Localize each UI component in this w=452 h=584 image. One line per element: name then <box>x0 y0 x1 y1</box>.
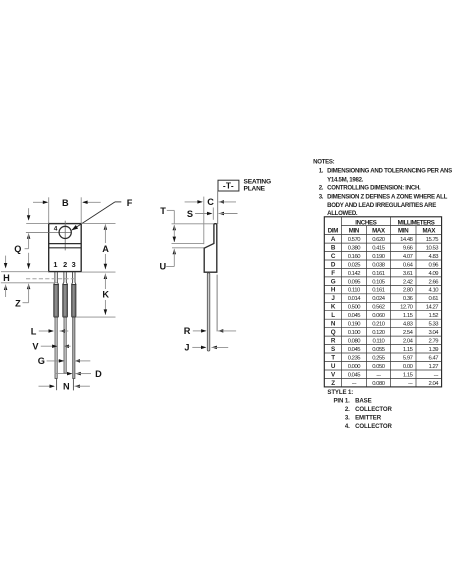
side view: lead <box>207 273 210 351</box>
svg-text:0.050: 0.050 <box>372 364 385 370</box>
svg-text:4.: 4. <box>345 423 350 430</box>
svg-text:10.53: 10.53 <box>426 245 439 251</box>
svg-text:1.15: 1.15 <box>403 313 414 319</box>
svg-text:0.105: 0.105 <box>372 279 385 285</box>
front view: thin lead 2 lower section <box>64 317 66 373</box>
front view: thick lead sections (dim K zone) <box>54 284 76 317</box>
front view: A dimension <box>81 224 115 273</box>
svg-text:---: --- <box>408 381 413 387</box>
svg-text:0.570: 0.570 <box>348 237 361 243</box>
svg-text:0.045: 0.045 <box>348 372 361 378</box>
front view: body step lines <box>49 244 81 248</box>
svg-text:0.095: 0.095 <box>348 279 361 285</box>
side view: package body outline <box>204 224 217 273</box>
svg-text:1.15: 1.15 <box>403 347 414 353</box>
svg-text:0.025: 0.025 <box>348 262 361 268</box>
style 1 pin assignment list <box>327 389 392 430</box>
svg-text:5.97: 5.97 <box>403 355 413 361</box>
svg-text:0.96: 0.96 <box>429 262 440 268</box>
svg-text:2.66: 2.66 <box>429 279 440 285</box>
svg-text:0.120: 0.120 <box>372 330 385 336</box>
svg-text:-T-: -T- <box>223 181 234 191</box>
svg-text:4: 4 <box>54 225 58 232</box>
front view: Z dimension <box>15 284 30 309</box>
svg-text:0.080: 0.080 <box>348 339 361 345</box>
svg-text:1.: 1. <box>319 168 324 175</box>
svg-text:2: 2 <box>63 260 67 269</box>
svg-text:0.060: 0.060 <box>372 313 385 319</box>
svg-text:DIMENSIONING AND TOLERANCING P: DIMENSIONING AND TOLERANCING PER ANSI <box>327 168 452 175</box>
svg-text:4.10: 4.10 <box>429 288 440 294</box>
svg-text:B: B <box>62 198 69 208</box>
svg-text:2.: 2. <box>345 406 350 413</box>
svg-text:0.110: 0.110 <box>348 288 361 294</box>
svg-text:J: J <box>184 343 189 353</box>
front view: pin number labels 1 2 3 <box>53 260 75 269</box>
side view: seating plane text <box>244 179 271 193</box>
svg-text:2.54: 2.54 <box>403 330 414 336</box>
svg-text:0.190: 0.190 <box>348 322 361 328</box>
svg-text:0.500: 0.500 <box>348 305 361 311</box>
svg-text:2.80: 2.80 <box>403 288 414 294</box>
svg-text:N: N <box>63 382 70 392</box>
svg-text:3.: 3. <box>345 415 350 422</box>
svg-text:MAX: MAX <box>372 227 386 234</box>
svg-text:K: K <box>102 290 109 300</box>
side view: J dimension <box>184 343 228 353</box>
svg-text:NOTES:: NOTES: <box>313 159 335 166</box>
svg-text:3.04: 3.04 <box>429 330 440 336</box>
svg-text:0.161: 0.161 <box>372 288 384 294</box>
svg-text:0.415: 0.415 <box>372 245 385 251</box>
svg-text:15.75: 15.75 <box>426 237 439 243</box>
svg-text:V: V <box>32 342 39 352</box>
svg-text:1.15: 1.15 <box>403 372 414 378</box>
svg-text:4.83: 4.83 <box>429 254 440 260</box>
front view: G dimension <box>38 356 91 366</box>
svg-text:DIMENSION Z DEFINES A ZONE WHE: DIMENSION Z DEFINES A ZONE WHERE ALL <box>327 194 447 201</box>
svg-text:DIM: DIM <box>328 227 338 234</box>
svg-text:4.09: 4.09 <box>429 271 439 277</box>
svg-text:3: 3 <box>72 260 76 269</box>
front view: F leader to mounting hole <box>70 198 132 232</box>
svg-text:S: S <box>187 209 193 219</box>
side view: seating plane extension below body <box>216 275 218 332</box>
svg-text:6.47: 6.47 <box>429 355 439 361</box>
front view: mounting hole <box>59 226 71 238</box>
front view: H dimension <box>1 256 57 297</box>
svg-text:COLLECTOR: COLLECTOR <box>355 406 392 413</box>
notes block <box>313 159 452 218</box>
front view: thin lead 1 lower section <box>55 317 57 390</box>
dimension table data <box>331 236 440 387</box>
svg-text:0.00: 0.00 <box>403 364 414 370</box>
svg-text:STYLE 1:: STYLE 1: <box>327 389 353 396</box>
svg-text:C: C <box>207 197 214 207</box>
front view: L dimension <box>31 326 69 336</box>
svg-text:ALLOWED.: ALLOWED. <box>327 210 358 217</box>
svg-text:9.66: 9.66 <box>403 245 414 251</box>
svg-text:1.27: 1.27 <box>429 364 439 370</box>
svg-text:0.210: 0.210 <box>372 322 385 328</box>
side view: datum extension line from box <box>217 191 219 224</box>
svg-text:12.70: 12.70 <box>400 305 413 311</box>
svg-text:2.04: 2.04 <box>403 339 414 345</box>
svg-text:0.045: 0.045 <box>348 347 361 353</box>
svg-text:0.161: 0.161 <box>372 271 384 277</box>
svg-text:14.27: 14.27 <box>426 305 438 311</box>
svg-text:R: R <box>184 326 191 336</box>
svg-text:MAX: MAX <box>422 227 436 234</box>
svg-text:Y14.5M, 1982.: Y14.5M, 1982. <box>327 177 364 184</box>
svg-text:1.39: 1.39 <box>429 347 439 353</box>
svg-text:2.79: 2.79 <box>429 339 439 345</box>
svg-text:4.07: 4.07 <box>403 254 413 260</box>
svg-text:0.080: 0.080 <box>372 381 385 387</box>
svg-text:4.83: 4.83 <box>403 322 414 328</box>
front view: thin lead 3 lower section <box>73 317 75 390</box>
svg-text:0.620: 0.620 <box>372 237 385 243</box>
svg-text:0.255: 0.255 <box>372 355 385 361</box>
svg-text:D: D <box>95 369 102 379</box>
dimension table header text <box>328 219 437 234</box>
svg-text:0.014: 0.014 <box>348 296 361 302</box>
svg-text:2.42: 2.42 <box>403 279 413 285</box>
svg-text:0.61: 0.61 <box>429 296 439 302</box>
svg-text:0.190: 0.190 <box>372 254 385 260</box>
front view: B width dimension <box>33 197 101 223</box>
front view: N dimension <box>39 382 90 392</box>
svg-text:0.055: 0.055 <box>372 347 385 353</box>
front view: D dimension <box>55 369 103 379</box>
side view: U dimension with label bracket <box>159 248 204 271</box>
svg-text:0.038: 0.038 <box>372 262 385 268</box>
front view: lead zone dash-dot line <box>26 278 77 280</box>
svg-text:T: T <box>160 206 166 216</box>
side view: T dimension with label bracket <box>160 206 214 243</box>
svg-text:BASE: BASE <box>355 397 372 404</box>
svg-text:0.100: 0.100 <box>348 330 361 336</box>
svg-text:1.52: 1.52 <box>429 313 439 319</box>
svg-text:0.160: 0.160 <box>348 254 361 260</box>
svg-text:1: 1 <box>53 260 57 269</box>
svg-text:2.: 2. <box>319 185 324 192</box>
svg-text:Q: Q <box>14 244 21 254</box>
svg-text:PLANE: PLANE <box>244 185 266 192</box>
side view: C dimension <box>185 197 236 245</box>
front view: K dimension <box>76 274 116 318</box>
svg-text:0.110: 0.110 <box>372 339 385 345</box>
svg-text:0.380: 0.380 <box>348 245 361 251</box>
svg-text:0.64: 0.64 <box>403 262 414 268</box>
svg-text:MIN: MIN <box>349 227 359 234</box>
svg-text:CONTROLLING DIMENSION: INCH.: CONTROLLING DIMENSION: INCH. <box>327 185 421 192</box>
side view: seating plane -T- datum box <box>218 180 239 191</box>
svg-text:0.36: 0.36 <box>403 296 414 302</box>
svg-text:0.562: 0.562 <box>372 305 384 311</box>
front view: hole centerlines <box>26 221 72 251</box>
svg-text:0.024: 0.024 <box>372 296 385 302</box>
svg-text:5.33: 5.33 <box>429 322 440 328</box>
svg-text:Q: Q <box>331 329 336 336</box>
svg-text:H: H <box>3 273 10 283</box>
svg-text:Z: Z <box>15 298 21 308</box>
svg-text:3.: 3. <box>319 194 324 201</box>
svg-text:---: --- <box>352 381 357 387</box>
svg-text:A: A <box>102 244 109 254</box>
svg-text:G: G <box>38 356 45 366</box>
front view: lead necks below body <box>54 272 76 285</box>
svg-text:L: L <box>31 326 37 336</box>
front view: package body outline <box>49 224 81 272</box>
front view: Q dimension <box>14 208 48 269</box>
svg-text:0.045: 0.045 <box>348 313 361 319</box>
svg-text:EMITTER: EMITTER <box>355 415 382 422</box>
svg-text:PIN 1.: PIN 1. <box>333 397 350 404</box>
side view: R dimension <box>184 326 236 336</box>
svg-text:0.000: 0.000 <box>348 364 361 370</box>
svg-text:COLLECTOR: COLLECTOR <box>355 423 392 430</box>
svg-text:U: U <box>159 261 166 271</box>
svg-text:MIN: MIN <box>398 227 408 234</box>
svg-text:2.04: 2.04 <box>429 381 440 387</box>
svg-text:S: S <box>331 346 335 353</box>
svg-text:---: --- <box>376 372 381 378</box>
side view: S dimension <box>187 208 238 220</box>
svg-text:0.235: 0.235 <box>348 355 361 361</box>
svg-text:F: F <box>127 198 133 208</box>
front view: V dimension <box>32 342 70 352</box>
svg-text:14.48: 14.48 <box>400 237 413 243</box>
svg-text:MILLIMETERS: MILLIMETERS <box>398 219 435 226</box>
dimension table grid <box>324 217 441 387</box>
svg-text:BODY AND LEAD IRREGULARITIES A: BODY AND LEAD IRREGULARITIES ARE <box>327 202 436 209</box>
svg-text:---: --- <box>434 372 439 378</box>
svg-text:3.61: 3.61 <box>403 271 413 277</box>
svg-text:0.142: 0.142 <box>348 271 360 277</box>
svg-text:INCHES: INCHES <box>355 219 376 226</box>
svg-text:G: G <box>331 278 336 285</box>
